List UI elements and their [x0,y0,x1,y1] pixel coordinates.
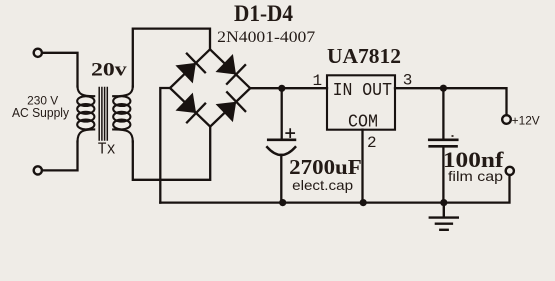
svg-text:IN OUT: IN OUT [333,80,392,101]
svg-text:2: 2 [367,134,377,152]
svg-text:1: 1 [313,72,323,90]
capacitor C2 plates [429,138,457,141]
diode D2 [216,54,237,75]
capacitor C1 top plate [268,138,295,141]
diode D3 [176,93,197,113]
wire: regulator COM to ground rail [361,130,363,203]
svg-text:D1-D4: D1-D4 [234,1,293,27]
svg-text:+12V: +12V [512,115,540,127]
junction node: C1 / ground rail [279,199,286,206]
junction node: COM / ground rail [360,199,367,206]
capacitor C2 bottom lead [442,148,444,203]
regulator U1 box [327,75,395,129]
svg-text:film cap: film cap [448,168,503,184]
capacitor C1 2700uF top lead [281,88,283,138]
capacitor C2 100nf top lead [442,88,444,138]
svg-text:COM: COM [348,111,378,132]
capacitor C1 bottom lead [280,155,282,203]
junction node: C2 / ground rail / ground [440,199,447,206]
svg-text:2N4001-4007: 2N4001-4007 [217,29,315,46]
bridge rectifier diamond [170,49,250,126]
svg-text:Tx: Tx [98,141,116,160]
terminal 0V output [506,167,514,175]
wire: AC bottom terminal to primary bottom [42,142,77,171]
terminal AC top-left [34,49,42,57]
wire: bridge minus (left vertex) to ground rail [160,88,170,203]
svg-text:3: 3 [403,72,413,90]
terminal AC bottom-left [34,166,42,174]
wire: secondary top to bridge AC1 (top vertex) [133,29,210,87]
diode D4 [216,102,237,122]
wire: bridge plus (right vertex) to regulator IN [250,87,327,89]
junction node: OUT / C2 [440,85,447,92]
wire: secondary bottom to bridge AC2 (bottom vertex) [133,127,210,180]
terminal +12V output [502,115,511,124]
wire: AC top terminal to primary top [42,53,77,87]
transformer secondary winding (right coil) [113,87,133,142]
junction node: bridge+ / C1 [278,85,285,92]
ground rail [160,175,509,202]
capacitor C1 curved bottom plate [267,147,295,155]
ground symbol [430,203,458,230]
diode D1 [175,63,196,84]
svg-text:20v: 20v [91,60,127,81]
transformer core (4 lines) [99,88,107,141]
wire: regulator OUT to +12V terminal [395,88,507,115]
svg-text:2700uF: 2700uF [289,155,362,179]
svg-text:AC Supply: AC Supply [12,106,70,120]
svg-text:elect.cap: elect.cap [292,177,353,193]
C1 plus sign [286,129,294,137]
transformer primary winding (left coil) [77,87,94,142]
svg-text:UA7812: UA7812 [327,44,401,68]
stray dot mark [452,135,454,137]
